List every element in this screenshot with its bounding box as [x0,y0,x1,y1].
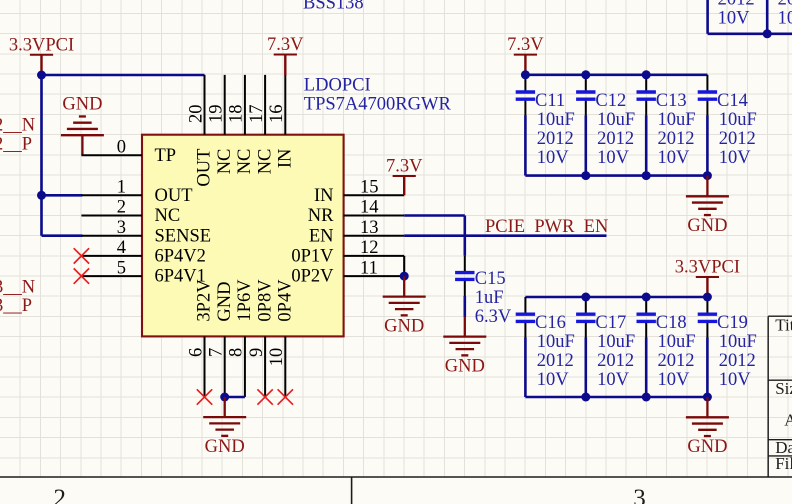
svg-text:10uF: 10uF [658,332,696,352]
svg-text:C16: C16 [535,313,566,333]
designator C14 and values [717,91,757,168]
designator C16 and values [535,313,575,390]
wire (3.3VPCI to pin 20) [42,74,205,77]
svg-text:10uF: 10uF [537,110,575,130]
svg-text:0: 0 [117,137,126,157]
svg-text:7.3V: 7.3V [267,35,304,55]
pin 18 (NC) top [227,75,255,174]
pin 2 (NC) [81,198,180,226]
designator C11 and values [535,91,575,168]
svg-text:2: 2 [117,198,126,218]
wire (pin 8 link to pin 7) [225,396,245,399]
pin 15 (IN) [314,178,404,206]
svg-text:12: 12 [360,238,379,258]
svg-text:1: 1 [117,178,126,198]
svg-text:BSS138: BSS138 [303,0,364,14]
svg-text:C18: C18 [656,313,687,333]
svg-text:16: 16 [267,105,287,124]
capacitor C19 [698,297,717,397]
pin 19 (NC) top [207,75,235,174]
svg-text:2__N: 2__N [0,116,35,136]
svg-text:7.3V: 7.3V [507,35,544,55]
svg-text:6: 6 [186,348,206,357]
svg-text:5: 5 [117,258,126,278]
ground GND (pin 7) [203,417,246,457]
wire (branch to OUT pin 1) [42,194,83,197]
svg-text:18: 18 [227,105,247,124]
svg-text:2012: 2012 [719,129,756,149]
svg-text:20: 20 [186,105,206,124]
svg-text:3__N: 3__N [0,277,35,297]
svg-text:NC: NC [235,149,255,175]
pin 6 (3P2V) bottom [186,279,214,397]
svg-text:GND: GND [445,356,485,376]
svg-text:2: 2 [53,485,66,504]
ground GND (C15) [443,337,486,377]
designator C13 and values [656,91,696,168]
svg-text:GND: GND [384,316,424,336]
node (junction at 3.3VPCI) [37,71,46,80]
svg-text:2012: 2012 [658,129,695,149]
designator C12 and values [595,91,635,168]
svg-text:C15: C15 [475,269,506,289]
node (junction at OUT branch) [37,191,46,200]
svg-text:C13: C13 [656,91,687,111]
wire (top-right partial cap bank vertical 2) [766,0,769,34]
svg-text:2__P: 2__P [0,134,32,154]
pin 12 (0P1V) [291,238,404,266]
svg-text:0P1V: 0P1V [291,247,334,267]
svg-text:10uF: 10uF [597,110,635,130]
node (junction at pin 11) [400,272,409,281]
svg-text:TPS7A4700RGWR: TPS7A4700RGWR [304,95,452,115]
designator C18 and values [656,313,696,390]
pin 14 (NR) [308,198,404,226]
svg-text:IN: IN [314,186,334,206]
pin 0 (TP) [81,137,176,165]
svg-text:10V: 10V [778,8,792,28]
no-ERC marker at pin 6 [197,389,212,404]
no-ERC marker at pin 4 [74,248,89,263]
svg-text:10V: 10V [597,370,630,390]
svg-text:GND: GND [205,437,245,457]
svg-text:EN: EN [309,226,334,246]
svg-text:10: 10 [267,348,287,367]
svg-text:OUT: OUT [155,186,193,206]
pin 11 (0P2V) [291,258,404,286]
svg-text:0P4V: 0P4V [276,279,296,322]
svg-text:8: 8 [227,348,247,357]
pin 4 (6P4V2) [81,238,206,266]
capacitor C18 [637,297,656,397]
svg-text:13: 13 [360,218,379,238]
svg-text:10uF: 10uF [719,110,757,130]
svg-text:10uF: 10uF [597,332,635,352]
svg-text:0P2V: 0P2V [291,267,334,287]
svg-text:3: 3 [117,218,126,238]
svg-text:10V: 10V [718,8,751,28]
sheet border bottom line [0,476,792,478]
svg-text:File:: File: [775,454,792,473]
capacitor C13 [637,75,656,176]
svg-text:IN: IN [276,149,296,169]
svg-text:15: 15 [360,178,379,198]
svg-text:Title: Title [775,316,792,335]
svg-text:9: 9 [247,348,267,357]
svg-text:NR: NR [308,206,334,226]
title block labels (clipped) [775,316,792,474]
capacitor C16 [516,297,535,397]
svg-text:C11: C11 [535,91,565,111]
pin 1 (OUT) [81,178,192,206]
svg-text:7: 7 [207,348,227,357]
power port 3.3VPCI (bank C16-C19) [675,258,740,297]
power port 7.3V (pin 16) [267,35,304,75]
wire (pin 12 down to pin 11 junction) [403,256,405,276]
sheet border section divider [351,477,353,504]
svg-text:1P6V: 1P6V [235,279,255,322]
node (junction at pin 7) [220,393,229,402]
svg-text:10V: 10V [537,370,570,390]
node (junctions bank1 top rail) [521,70,530,79]
svg-text:10V: 10V [658,148,691,168]
pin 9 (0P8V) bottom [247,279,275,397]
wire (3.3VPCI down to SENSE) [40,75,43,236]
svg-text:0P8V: 0P8V [255,279,275,322]
pin 13 (EN) [309,218,404,246]
pin 20 (OUT) top [186,75,214,187]
svg-text:TP: TP [155,146,177,166]
svg-text:2012: 2012 [597,129,634,149]
svg-text:OUT: OUT [195,149,215,187]
svg-text:GND: GND [62,94,102,114]
svg-text:17: 17 [247,105,267,124]
svg-text:4: 4 [117,238,126,258]
capacitor C14 [698,75,717,176]
no-ERC marker at pin 9 [257,389,272,404]
pin 5 (6P4V1) [81,258,206,286]
value labels (partial capacitor above, 2012 10V) [718,0,755,28]
designator C17 and values [595,313,635,390]
svg-text:10uF: 10uF [719,332,757,352]
svg-text:1uF: 1uF [475,288,504,308]
svg-text:C14: C14 [717,91,748,111]
pin 16 (IN) top [267,75,295,168]
no-ERC marker at pin 5 [74,268,89,283]
pin 7 (GND) bottom [207,282,235,397]
svg-text:3: 3 [633,485,646,504]
svg-text:SENSE: SENSE [155,226,212,246]
svg-text:10V: 10V [719,148,752,168]
op-amp/regulator U LDOPCI TPS7A4700RGWR body [142,135,344,337]
capacitor C17 [576,297,595,397]
svg-text:10uF: 10uF [658,110,696,130]
ground GND (bank C11-C14) [686,196,729,236]
svg-text:10uF: 10uF [537,332,575,352]
svg-text:GND: GND [215,282,235,322]
svg-text:2012: 2012 [597,351,634,371]
svg-text:C19: C19 [717,313,748,333]
svg-text:7.3V: 7.3V [386,157,423,177]
svg-text:PCIE PWR EN: PCIE PWR EN [485,217,608,237]
svg-text:LDOPCI: LDOPCI [304,76,371,96]
svg-text:11: 11 [360,258,378,278]
wire (top-right partial cap bank bottom rail) [708,32,792,35]
designator C19 and values [717,313,757,390]
capacitor C12 [576,75,595,176]
svg-text:19: 19 [207,105,227,124]
node (junctions bank2 bottom rail) [581,393,590,402]
wire (EN pin 13, net PCIE_PWR_EN) [404,234,606,237]
wire (bank2 bottom rail) [525,396,707,399]
svg-text:NC: NC [215,149,235,175]
svg-text:2012: 2012 [658,351,695,371]
ground GND (pins 11/12) [383,297,426,337]
power port 7.3V (bank C11-C14) [507,35,544,75]
svg-text:Size: Size [775,379,792,398]
no-ERC marker at pin 10 [278,389,293,404]
pin 10 (0P4V) bottom [267,279,295,397]
power port 3.3VPCI (top left) [9,35,74,75]
wire (NR pin 14 to C15) [404,214,465,217]
pin 3 (SENSE) [81,218,211,246]
svg-text:C12: C12 [595,91,626,111]
capacitor C15 [455,256,474,297]
svg-text:6.3V: 6.3V [475,307,512,327]
svg-text:2012: 2012 [719,351,756,371]
svg-text:2012: 2012 [537,129,574,149]
svg-text:NC: NC [155,206,181,226]
value labels (second partial capacitor, clipped) [778,0,792,28]
wire (C15 to GND) [463,296,466,317]
svg-text:10V: 10V [719,370,752,390]
wire (top-right partial cap bank vertical 1) [706,0,709,34]
designator C15 and values [475,269,512,327]
node (junctions bank1 bottom rail) [581,171,590,180]
svg-text:10V: 10V [658,370,691,390]
svg-text:10V: 10V [597,148,630,168]
ground GND (bank C16-C19) [686,417,729,457]
svg-text:C17: C17 [595,313,626,333]
svg-text:10V: 10V [537,148,570,168]
wire (bank1 top rail) [525,74,707,77]
title block frame [768,316,792,477]
svg-text:3.3VPCI: 3.3VPCI [675,258,740,278]
svg-text:3P2V: 3P2V [195,279,215,322]
svg-text:14: 14 [360,198,379,218]
pin 17 (NC) top [247,75,275,174]
svg-text:3.3VPCI: 3.3VPCI [9,35,74,55]
pin 8 (1P6V) bottom [227,279,255,397]
svg-text:GND: GND [687,216,727,236]
svg-text:2012: 2012 [537,351,574,371]
svg-text:GND: GND [687,437,727,457]
svg-text:NC: NC [255,149,275,175]
ground GND (inverted, at TP pin) [61,94,104,155]
wire (to SENSE pin 3) [42,234,83,237]
svg-text:3__P: 3__P [0,296,32,316]
svg-text:6P4V2: 6P4V2 [155,247,206,267]
power port 7.3V (pin 15) [386,157,423,196]
capacitor C11 [516,75,535,176]
svg-text:A: A [784,411,792,430]
wire (bank2 top rail) [525,296,707,299]
node (junctions bank2 top rail) [581,293,590,302]
wire (bank1 bottom rail) [525,174,707,177]
node (junction top-right rail) [763,29,772,38]
